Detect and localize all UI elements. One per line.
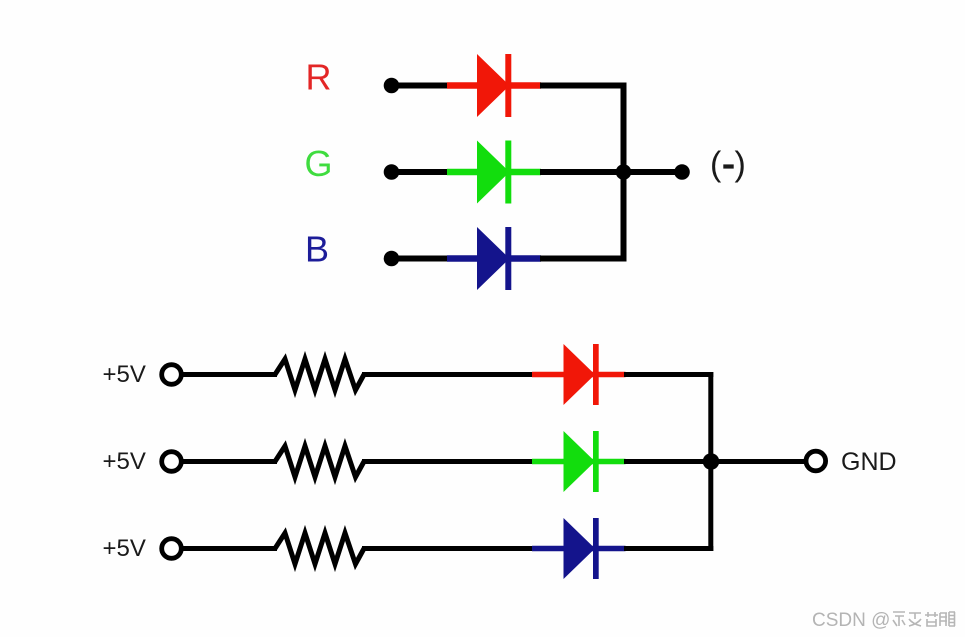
wire G terminal to LED anode	[392, 169, 450, 175]
LED D4 red lead wire	[532, 372, 626, 378]
LED D1 red lead wire	[447, 82, 541, 89]
wire R terminal to LED anode	[392, 83, 450, 89]
LED D1 red triangle	[477, 54, 510, 117]
wire resistor R1 to LED	[362, 372, 534, 377]
resistor R3	[275, 533, 364, 564]
wire B terminal to LED anode	[392, 256, 450, 262]
LED D3 blue lead wire	[447, 255, 541, 262]
label (-) minus sign	[723, 164, 733, 168]
LED D3 blue cathode bar	[505, 227, 511, 290]
LED D4 red cathode bar	[593, 344, 599, 405]
svg-text:CSDN @: CSDN @	[812, 610, 890, 631]
watermark CJK glyphs (drawn)	[893, 612, 955, 626]
wire D5 cathode to junction	[624, 459, 713, 464]
node R terminal dot	[384, 78, 400, 94]
svg-text:B: B	[305, 229, 329, 270]
wire ground vertical bus	[708, 372, 713, 551]
terminal circle +5V row 1	[162, 365, 182, 385]
svg-text:+5V: +5V	[103, 361, 146, 388]
cathode terminal dot	[674, 164, 690, 180]
wire terminal to resistor R1	[183, 372, 277, 377]
LED D4 red triangle	[564, 344, 596, 405]
wire resistor R2 to LED	[362, 459, 534, 464]
svg-text:+5V: +5V	[103, 448, 146, 475]
wire D3 cathode to bus	[540, 256, 627, 262]
wire terminal to resistor R2	[183, 459, 277, 464]
svg-text:G: G	[304, 143, 332, 184]
LED D3 blue triangle	[477, 227, 510, 290]
terminal circle +5V row 3	[162, 539, 182, 559]
wire junction to GND terminal	[711, 459, 806, 464]
LED D1 red cathode bar	[505, 54, 511, 117]
LED D6 blue cathode bar	[593, 518, 599, 579]
wire junction to cathode terminal	[624, 169, 683, 175]
node G terminal dot	[384, 164, 400, 180]
GND terminal circle	[806, 451, 826, 471]
LED D2 green cathode bar	[505, 141, 511, 204]
svg-text:R: R	[306, 57, 332, 98]
LED D2 green triangle	[477, 141, 510, 204]
wire terminal to resistor R3	[183, 546, 277, 551]
resistor R2	[275, 446, 364, 477]
LED D6 blue lead wire	[532, 546, 626, 552]
node B terminal dot	[384, 251, 400, 267]
wire D4 cathode to bus	[624, 372, 713, 377]
wire resistor R3 to LED	[362, 546, 534, 551]
svg-text:(: (	[710, 146, 722, 184]
LED D5 green cathode bar	[593, 431, 599, 492]
resistor R1	[275, 359, 364, 390]
svg-text:GND: GND	[841, 448, 897, 476]
junction node common cathode	[616, 164, 632, 180]
svg-text:): )	[735, 146, 746, 184]
terminal circle +5V row 2	[162, 452, 182, 472]
LED D6 blue triangle	[564, 518, 596, 579]
LED D2 green lead wire	[447, 169, 541, 176]
svg-text:+5V: +5V	[103, 535, 146, 562]
wire common-cathode vertical bus	[621, 83, 627, 262]
wire D6 cathode to bus	[624, 546, 713, 551]
junction node ground bus	[703, 453, 720, 470]
wire D2 cathode to bus	[540, 169, 627, 175]
LED D5 green triangle	[564, 431, 596, 492]
LED D5 green lead wire	[532, 459, 626, 465]
wire D1 cathode to bus	[540, 83, 627, 89]
